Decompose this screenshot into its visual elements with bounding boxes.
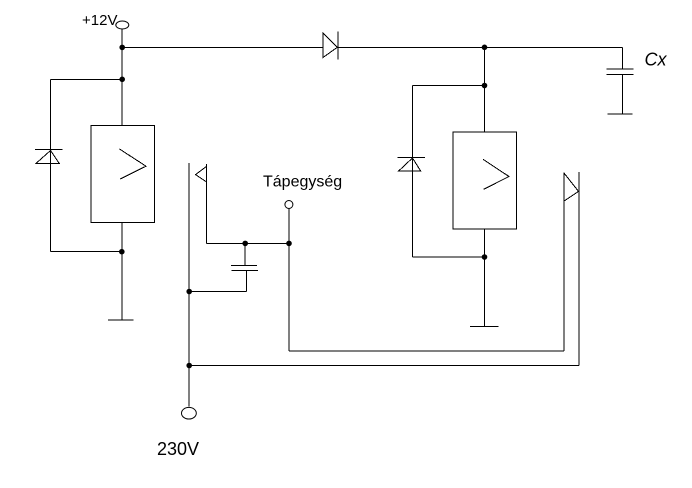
svg-text:230V: 230V xyxy=(157,439,199,459)
svg-text:+12V: +12V xyxy=(82,12,117,29)
svg-text:Tápegység: Tápegység xyxy=(263,174,342,191)
svg-text:Cx: Cx xyxy=(645,50,668,70)
